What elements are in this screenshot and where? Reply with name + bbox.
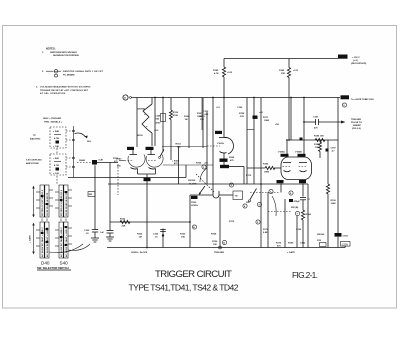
cathode join [138, 173, 156, 175]
wire vertical x197 [202, 98, 204, 149]
svg-text:B150: B150 [138, 135, 144, 137]
resistor R186 10K [315, 138, 325, 141]
wire vertical x95 [94, 166, 96, 230]
svg-text:R186 10K: R186 10K [314, 136, 324, 138]
svg-text:SW160: SW160 [188, 180, 196, 182]
resistor R159 [170, 110, 173, 120]
resistor R182 [265, 166, 275, 169]
node open circle on bus [219, 246, 222, 249]
wire vertical x297 [296, 216, 298, 248]
svg-text:C160: C160 [84, 230, 90, 232]
junction dot rail B x252 [253, 97, 255, 99]
wire vertical x213 [212, 98, 214, 192]
node B circled input from sweep [123, 95, 128, 100]
resistor R184 [301, 210, 304, 220]
node square pc board [300, 138, 303, 141]
coupling dashes y211.5 [268, 211, 292, 213]
wiper arrow to grid [75, 133, 86, 137]
svg-text:+ R40: + R40 [53, 130, 60, 133]
svg-text:R150: R150 [212, 241, 218, 243]
cathode B [300, 171, 307, 172]
svg-text:SW (B): SW (B) [291, 207, 298, 209]
svg-text:SWITCHES WITH S/N SW01: SWITCHES WITH S/N SW01 [50, 52, 78, 54]
svg-text:TRIGGER CIRCUIT: TRIGGER CIRCUIT [155, 269, 233, 280]
junction dot rail B x180 [154, 97, 156, 99]
svg-text:TD: TD [235, 196, 238, 198]
wire vertical x244 [243, 167, 245, 185]
cathode label box B [299, 180, 306, 183]
wire vertical drop from +150V rail at x224 [223, 59, 225, 68]
svg-text:AC SLOW DC FAST + LINE 2: AC SLOW DC FAST + LINE 2 [41, 227, 44, 257]
wire bottom bus [107, 247, 345, 249]
cathode B [149, 168, 156, 170]
tube label V152B [146, 147, 154, 150]
svg-text:1uF: 1uF [100, 232, 105, 234]
svg-text:R174: R174 [263, 228, 269, 231]
triode V161A envelope arc [225, 137, 234, 154]
wire vertical x163 [162, 98, 164, 153]
switch wafer 1 front [40, 185, 44, 217]
svg-text:R165: R165 [137, 234, 143, 236]
wire vertical x207 [206, 112, 208, 184]
wire input to grid line [97, 162, 118, 164]
cap C184 block [289, 199, 293, 202]
plate B [148, 154, 156, 156]
contact dots [73, 130, 75, 132]
terminal box to gate [341, 95, 350, 99]
selector bracket upper [33, 187, 35, 216]
component C156 [161, 114, 166, 122]
svg-text:R185: R185 [279, 70, 285, 72]
svg-text:27K: 27K [240, 116, 244, 118]
svg-text:15K: 15K [181, 237, 185, 239]
dashed link SW40 [77, 162, 92, 164]
svg-text:4700: 4700 [156, 122, 162, 125]
svg-text:TRIGGER SW SET AT +INT. C: TRIGGER SW SET AT +INT. CONTROLS SET [40, 89, 89, 92]
link wire y148 [162, 146, 207, 148]
linkage dashes box2 to wafer [56, 176, 58, 184]
svg-text:SW40: SW40 [79, 159, 86, 162]
wire plate feed V185 [288, 78, 290, 141]
svg-text:R159: R159 [173, 112, 179, 114]
svg-text:22K: 22K [122, 226, 126, 228]
svg-text:V161A: V161A [217, 142, 224, 145]
svg-text:4.7M: 4.7M [54, 164, 59, 167]
svg-text:R171: R171 [263, 117, 269, 119]
node circled 7 [295, 211, 299, 215]
selector bracket lower [33, 224, 35, 253]
wire long rail y184 [108, 183, 308, 185]
svg-text:R162: R162 [180, 234, 186, 236]
junction dot rail B x163 [162, 97, 164, 99]
node circled 3 [229, 183, 233, 187]
supply box -150V [341, 242, 351, 247]
pot label box [191, 196, 198, 199]
svg-text:+123: +123 [293, 70, 299, 72]
wire +150V plate supply rail [224, 58, 338, 60]
svg-text:R152: R152 [120, 219, 126, 221]
plate pin A [286, 140, 288, 157]
plate A [283, 162, 291, 164]
svg-text:S40: S40 [60, 261, 69, 266]
contact dashes box2 [66, 157, 74, 159]
wire trigger pulse output [304, 121, 316, 123]
svg-text:R163: R163 [176, 144, 182, 146]
wire cathode to x244 [229, 166, 244, 168]
label box SW output [335, 233, 342, 237]
tube label V161A [215, 131, 222, 134]
svg-text:SHOWN IN CCW POSITION.: SHOWN IN CCW POSITION. [53, 55, 79, 57]
svg-text:TRIGGER: TRIGGER [351, 119, 361, 121]
junction dot x190 y222 [189, 221, 191, 223]
svg-text:+ R164: + R164 [172, 160, 180, 163]
op tube V185 dual triode envelope [281, 157, 312, 180]
svg-text:(FIG.2-2): (FIG.2-2) [352, 128, 361, 130]
supply label box +150V [338, 55, 348, 59]
wire vertical x189 [188, 98, 190, 149]
svg-text:15K: 15K [213, 244, 217, 246]
svg-text:470pF: 470pF [294, 200, 301, 203]
cathode label box A [277, 180, 284, 183]
wire vertical x285 [284, 199, 286, 248]
svg-text:LEVEL / SLOPE: LEVEL / SLOPE [131, 252, 148, 254]
capacitor at x110 [107, 230, 114, 232]
svg-text:TRIGGER: TRIGGER [214, 252, 224, 254]
svg-text:C152: C152 [203, 111, 209, 113]
svg-text:TYPE TS41,TD41, TS42 & TD42: TYPE TS41,TD41, TS42 & TD42 [129, 282, 239, 292]
svg-text:LEVEL: LEVEL [191, 205, 199, 207]
svg-text:R166: R166 [196, 163, 202, 165]
svg-text:4.7M: 4.7M [54, 137, 59, 140]
grid A dashed [125, 160, 134, 162]
svg-text:R145: R145 [213, 69, 219, 72]
wire drop x137 [136, 98, 138, 148]
svg-text:+105: +105 [227, 72, 233, 74]
switch wafer 1 rear [45, 185, 49, 217]
svg-text:R180: R180 [288, 243, 294, 245]
wire vertical x190 pot [189, 195, 191, 248]
svg-text:180K: 180K [264, 120, 270, 122]
svg-text:R190: R190 [331, 200, 337, 202]
wafer output wires [68, 244, 90, 250]
wire vertical x252 [253, 98, 255, 185]
svg-text:TRIG.: TRIG. [191, 202, 197, 204]
svg-text:+ 150 V: + 150 V [352, 57, 360, 59]
svg-text:FIG.2-1.: FIG.2-1. [292, 270, 318, 280]
wire pot rail y195 [190, 194, 213, 196]
svg-text:4.7K: 4.7K [214, 72, 219, 75]
capacitor C184 47 [300, 197, 306, 199]
capacitor C165 lead [162, 229, 164, 248]
svg-text:2R TRIG 1F EXT 3R INT 4: 2R TRIG 1F EXT 3R INT 4 [41, 189, 44, 216]
svg-text:R158: R158 [239, 113, 245, 115]
link wire y160 [163, 164, 213, 166]
plate A [130, 154, 138, 156]
svg-text:V185A: V185A [278, 151, 285, 154]
tube label V152A [127, 147, 134, 150]
svg-text:DENOTES SIGNAL PATH 1 ON: DENOTES SIGNAL PATH 1 ON CKT [63, 70, 104, 73]
svg-text:R176: R176 [229, 221, 235, 223]
svg-text:+ C41: + C41 [53, 172, 60, 175]
svg-text:+R43: +R43 [116, 158, 122, 161]
svg-text:-150V: -150V [341, 242, 348, 246]
cathode resistor lead x147 [146, 174, 148, 248]
svg-text:T-B COUPLING: T-B COUPLING [26, 160, 42, 162]
svg-text:C155: C155 [237, 107, 243, 109]
wiper curve [272, 196, 276, 216]
tube label V185B [298, 154, 306, 157]
node symbol circled 9 [342, 103, 346, 107]
svg-text:PULSE TO: PULSE TO [351, 122, 362, 124]
node circled 5 [256, 220, 260, 224]
svg-text:(DECOUPLED): (DECOUPLED) [351, 63, 366, 65]
svg-text:470K: 470K [173, 114, 179, 117]
cathode V161A [220, 152, 227, 154]
svg-text:C180: C180 [300, 243, 306, 245]
svg-text:8.2K: 8.2K [99, 160, 104, 162]
svg-text:V185B: V185B [295, 152, 302, 154]
wire vertical x268 [267, 192, 269, 248]
pot wiper arrow [200, 186, 206, 194]
wire vertical x291 [290, 98, 292, 141]
wire vertical x308 [307, 184, 309, 248]
node circled 1 [202, 165, 206, 169]
junction dot rail B x224 [223, 97, 225, 99]
wire selector column [73, 126, 75, 177]
svg-text:C187: C187 [331, 148, 337, 150]
cathode bus label box [220, 165, 229, 168]
svg-text:180K: 180K [264, 172, 270, 174]
switch wafer 3 rear [45, 222, 49, 258]
junction dot rail B x304 [303, 97, 305, 99]
svg-text:NOTES:: NOTES: [46, 48, 56, 51]
node circled A on bus [222, 240, 226, 244]
svg-text:SLOPE: SLOPE [189, 184, 197, 186]
tube label V185A [281, 154, 289, 157]
wire box feed [219, 194, 233, 196]
resistor R145 4.7K [222, 67, 225, 77]
svg-text:R172: R172 [246, 175, 252, 177]
svg-text:P.C. BOARD.: P.C. BOARD. [63, 73, 75, 76]
wire vertical x261 [260, 98, 262, 248]
grid A [283, 166, 292, 168]
svg-text:C181: C181 [313, 117, 319, 119]
switch wafer 2 front [59, 185, 63, 217]
svg-text:33K: 33K [281, 73, 285, 75]
grid B dashed [148, 160, 157, 162]
wafer mid gap ticks [41, 219, 43, 222]
slope switch contact arm [160, 150, 164, 157]
resistor R187 feedback [319, 140, 321, 142]
svg-text:1M: 1M [185, 119, 188, 121]
linkage dashes box1 to box2 [56, 149, 58, 155]
switch box TD [233, 191, 243, 200]
svg-text:100K: 100K [331, 203, 337, 205]
small switch box SW40B [88, 192, 95, 197]
plate V161A [219, 137, 227, 139]
wire level rail y222 [110, 221, 190, 223]
svg-text:+ R41: + R41 [53, 157, 60, 160]
coupling switch box 1 (dashed) [50, 127, 66, 148]
contact dashes box1 [66, 130, 74, 132]
capacitor C160 .01 [92, 229, 98, 231]
wafer left ticks upper [36, 191, 40, 193]
resistor R152 22K horizontal [120, 220, 130, 223]
svg-text:R187: R187 [314, 144, 320, 146]
svg-text:2R TRIG 1F EXT 3R INT 4: 2R TRIG 1F EXT 3R INT 4 [60, 189, 63, 216]
cathode label box [220, 159, 228, 162]
junction dot rail B x213 [212, 97, 214, 99]
wire plate link y140 [289, 139, 338, 141]
svg-text:C165: C165 [153, 234, 159, 236]
switch wafer 2 rear [64, 185, 68, 217]
component block 8.2K [92, 160, 97, 165]
resistor R190 100K [327, 140, 329, 184]
cathode lead A [280, 183, 282, 192]
box R15 [320, 243, 327, 247]
svg-text:SW160: SW160 [317, 234, 325, 236]
svg-text:AMPLITUDE: AMPLITUDE [26, 162, 39, 165]
label box x252 [253, 116, 258, 119]
svg-text:SWEEP: SWEEP [353, 125, 361, 127]
svg-text:SW. SELECTOR SWITCH: SW. SELECTOR SWITCH [37, 266, 69, 270]
wire grid rail y178 [68, 177, 186, 179]
svg-text:To +GATE TUBE V183: To +GATE TUBE V183 [351, 98, 374, 101]
wire vertical x171 [170, 98, 172, 111]
svg-text:10K: 10K [315, 147, 319, 149]
svg-text:VOLTAGES MEASURED WITH NO: VOLTAGES MEASURED WITH NO SIG INPUT, [40, 86, 91, 89]
node circled B2 [192, 225, 196, 229]
svg-text:(+.5): (+.5) [353, 60, 358, 62]
junction dot x304 y122 [303, 121, 305, 123]
svg-text:R184: R184 [306, 213, 312, 216]
resistor R185 33K [288, 59, 290, 68]
wafer contact ticks [49, 189, 53, 191]
coupling switch box 2 (dashed) [50, 154, 66, 175]
junction dot rail B x291 [290, 97, 292, 99]
svg-text:C162: C162 [296, 229, 302, 231]
triode V152A envelope [128, 155, 145, 168]
wire vertical x110 [109, 163, 111, 231]
wire vertical x180 [178, 147, 180, 185]
node circled 4 [243, 204, 247, 208]
svg-text:+ GATE: + GATE [29, 235, 32, 243]
triode V152B envelope [146, 155, 163, 168]
wire vertical x247 [246, 98, 248, 185]
cathode A [131, 168, 138, 170]
plate B [299, 162, 307, 164]
contact arm SW160B [250, 189, 257, 200]
grid feed wire y168 [247, 167, 265, 169]
junction dot x289 y140 [288, 139, 290, 141]
dashed linkage x118 [117, 164, 119, 195]
svg-text:+ C40: + C40 [53, 145, 60, 148]
ground at x95 [91, 237, 99, 239]
junction dot [162, 234, 164, 236]
curve wire to left [200, 168, 207, 182]
U contact symbol [213, 191, 219, 198]
wafer left ticks lower [36, 229, 40, 231]
node circled 6 [289, 191, 293, 195]
svg-text:TRIG. SIGNALS +: TRIG. SIGNALS + [44, 121, 63, 124]
svg-text:R175: R175 [276, 243, 282, 245]
svg-text:+ GATE: + GATE [287, 251, 295, 254]
wire -150V drop [344, 246, 346, 247]
svg-text:R168: R168 [211, 234, 217, 236]
svg-text:R166: R166 [229, 157, 235, 159]
cathode label box [144, 178, 151, 181]
wafer contact blobs [41, 195, 44, 197]
cathode lead B [302, 183, 304, 196]
switch wafer 3 front [40, 222, 44, 258]
svg-text:D40: D40 [41, 261, 50, 266]
svg-text:AT SEL OPERATION.: AT SEL OPERATION. [40, 92, 66, 95]
wire x220 to bus [219, 197, 221, 248]
svg-text:SELF + TRIGGER: SELF + TRIGGER [43, 118, 61, 120]
svg-text:1R 2R 3R 4R 5R 6R 7R: 1R 2R 3R 4R 5R 6R 7R [65, 192, 68, 216]
svg-text:6.8K: 6.8K [263, 232, 268, 234]
wire main +100V bus [132, 97, 341, 99]
dashed gang line y192 [250, 192, 280, 194]
pc board square node [326, 149, 329, 152]
svg-text:AC SLOW DC FAST + LINE 2: AC SLOW DC FAST + LINE 2 [65, 227, 68, 257]
ground at x110 [106, 236, 114, 238]
gang dashed diagonal [196, 174, 214, 192]
switch wafer 4 front [59, 222, 63, 258]
grid V161A dashed [207, 145, 220, 147]
svg-text:R182: R182 [263, 164, 269, 166]
wire vertical x338 to -150V [337, 98, 339, 234]
svg-text:BAL/TRIG: BAL/TRIG [30, 138, 41, 141]
wire plate feed V161 [223, 77, 225, 131]
junction dot x147 bus [146, 247, 148, 249]
node circled 2 [257, 202, 261, 206]
wire vertical x304 [303, 98, 305, 158]
svg-text:C183: C183 [343, 236, 349, 238]
junction dot x261 y184 [260, 183, 262, 185]
switch wafer 4 rear [64, 222, 68, 258]
svg-text:SIG.: SIG. [87, 141, 92, 143]
node circled 1b [269, 189, 273, 193]
grid B [299, 166, 308, 168]
cathode A [284, 171, 291, 172]
capacitor C181 470 [315, 119, 317, 125]
svg-text:C158: C158 [155, 116, 161, 118]
